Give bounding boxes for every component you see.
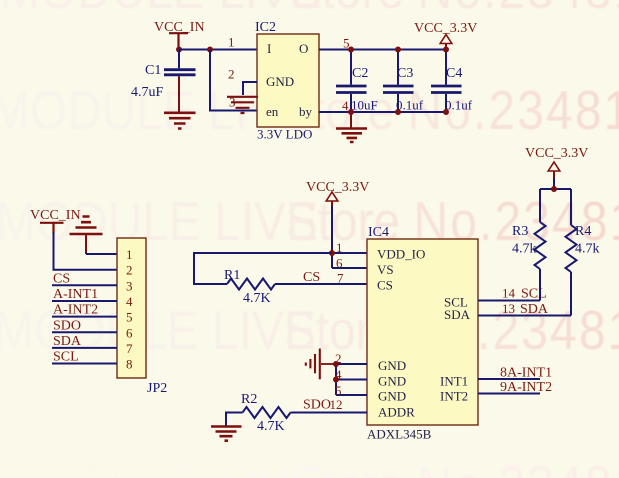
wire R2 to IC4 pin12 ADDR bbox=[291, 412, 368, 414]
node junction C3 top bbox=[395, 47, 401, 53]
ground under C2 bbox=[336, 112, 367, 142]
capacitor C2 bbox=[336, 50, 378, 113]
node junction IC4 pin1 bbox=[329, 250, 335, 256]
svg-text:INT2: INT2 bbox=[440, 389, 468, 404]
watermark row 4 bbox=[0, 303, 619, 358]
wire IC4 INT2 pin9 bbox=[478, 393, 540, 395]
svg-text:en: en bbox=[266, 104, 279, 119]
ground sideways (IC4 GND) bbox=[306, 349, 336, 380]
watermark row 5 (bottom, cut) bbox=[0, 458, 619, 478]
wire R1 loop bbox=[194, 253, 332, 284]
node junction C4 top bbox=[443, 47, 449, 53]
svg-text:GND: GND bbox=[378, 358, 406, 373]
power symbol VCC_3.3V (above IC4) bbox=[306, 180, 369, 208]
svg-text:CS: CS bbox=[377, 278, 393, 293]
svg-text:8: 8 bbox=[126, 357, 133, 372]
svg-text:9A-INT2: 9A-INT2 bbox=[500, 380, 552, 395]
svg-text:6: 6 bbox=[126, 325, 133, 340]
svg-text:SDO: SDO bbox=[53, 318, 81, 333]
svg-text:4.7uF: 4.7uF bbox=[131, 85, 164, 100]
svg-text:13: 13 bbox=[502, 301, 515, 316]
svg-text:I: I bbox=[267, 41, 271, 56]
svg-text:7: 7 bbox=[126, 341, 133, 356]
wire VCC to IC4 pin1/pin6 bbox=[332, 206, 367, 268]
wire JP2 pin1 bbox=[86, 253, 117, 255]
wire IC4 SDA pin13 bbox=[478, 315, 571, 317]
svg-text:0.1uf: 0.1uf bbox=[445, 98, 473, 113]
svg-text:C3: C3 bbox=[397, 66, 413, 81]
svg-text:SDA: SDA bbox=[53, 334, 82, 349]
watermark row 2 bbox=[0, 83, 619, 138]
node junction C4 bottom bbox=[443, 109, 449, 115]
svg-text:VDD_IO: VDD_IO bbox=[377, 247, 425, 262]
svg-text:INT1: INT1 bbox=[440, 374, 468, 389]
ground at IC2 pin2 bbox=[227, 97, 258, 113]
wire GND bus IC4 bbox=[336, 364, 367, 395]
svg-text:4: 4 bbox=[126, 294, 133, 309]
svg-text:A-INT2: A-INT2 bbox=[53, 303, 98, 318]
wire JP2 pin6 SDO bbox=[52, 331, 117, 333]
node junction R3/R4 VCC bbox=[551, 186, 557, 192]
node junction C2 top bbox=[348, 47, 354, 53]
svg-text:SDA: SDA bbox=[444, 307, 471, 322]
node junction VCC_IN/C1 bbox=[176, 47, 182, 53]
wire JP2 pin3 CS bbox=[52, 284, 117, 286]
node junction GND pin2 bbox=[333, 361, 339, 367]
wire IC2 pin2 to ground bbox=[243, 82, 257, 95]
svg-text:CS: CS bbox=[53, 271, 70, 286]
resistor R2 bbox=[241, 392, 291, 434]
resistor R4 bbox=[566, 189, 600, 316]
svg-text:4.7K: 4.7K bbox=[243, 291, 271, 306]
svg-text:6: 6 bbox=[336, 256, 343, 271]
wire to IC2 pin3 en bbox=[210, 50, 257, 111]
svg-text:4: 4 bbox=[335, 367, 342, 382]
wire IC2 by pin rail bottom bbox=[319, 111, 446, 113]
svg-text:R1: R1 bbox=[224, 268, 240, 283]
svg-text:R4: R4 bbox=[575, 224, 591, 239]
svg-text:VCC_IN: VCC_IN bbox=[30, 208, 81, 223]
svg-text:by: by bbox=[299, 104, 313, 119]
svg-text:JP2: JP2 bbox=[147, 381, 167, 396]
power symbol VCC_IN (JP2) bbox=[30, 208, 81, 234]
wire IC4 SCL pin14 bbox=[478, 300, 540, 302]
capacitor C4 bbox=[431, 50, 473, 113]
svg-text:2: 2 bbox=[126, 263, 133, 278]
wire R2 left to ground bbox=[226, 413, 243, 426]
ground under C1 bbox=[164, 113, 196, 129]
wire VCC_IN to IC2 pin1 bbox=[179, 49, 257, 51]
svg-text:3: 3 bbox=[126, 278, 133, 293]
resistor R3 bbox=[512, 189, 546, 301]
wire JP2 pin7 SDA bbox=[52, 347, 117, 349]
wire JP2 pin8 SCL bbox=[52, 363, 117, 365]
svg-text:4.7k: 4.7k bbox=[575, 242, 600, 257]
node junction GND pin4 bbox=[333, 377, 339, 383]
wire JP2 pin4 A-INT1 bbox=[52, 300, 117, 302]
svg-text:SDA: SDA bbox=[520, 302, 549, 317]
node junction C3 bottom bbox=[395, 109, 401, 115]
svg-text:SDO: SDO bbox=[303, 398, 331, 413]
watermark row 3 bbox=[0, 194, 619, 249]
svg-text:A-INT1: A-INT1 bbox=[53, 287, 98, 302]
svg-text:SCL: SCL bbox=[53, 350, 79, 365]
accelerometer IC4 box bbox=[367, 225, 478, 442]
svg-text:10uF: 10uF bbox=[351, 98, 378, 113]
svg-text:R3: R3 bbox=[512, 224, 528, 239]
power symbol VCC_IN (top) bbox=[154, 20, 205, 47]
ground at JP2 pin1 (inverted) bbox=[70, 217, 103, 255]
svg-text:R2: R2 bbox=[241, 392, 257, 407]
svg-text:1: 1 bbox=[228, 35, 235, 50]
svg-text:VS: VS bbox=[377, 262, 394, 277]
IC2 regulator box bbox=[255, 20, 319, 142]
capacitor C3 bbox=[383, 50, 424, 113]
svg-text:8A-INT1: 8A-INT1 bbox=[500, 366, 552, 381]
svg-text:CS: CS bbox=[303, 270, 320, 285]
svg-text:ADXL345B: ADXL345B bbox=[367, 427, 432, 442]
svg-text:O: O bbox=[299, 41, 308, 56]
wire JP2 pin5 A-INT2 bbox=[52, 316, 117, 318]
node junction C2 bottom bbox=[348, 109, 354, 115]
ground under R2 bbox=[211, 427, 242, 441]
svg-text:12: 12 bbox=[330, 397, 343, 412]
svg-text:SCL: SCL bbox=[521, 287, 547, 302]
svg-text:ADDR: ADDR bbox=[378, 405, 415, 420]
wire VCC_IN to JP2 pin2 bbox=[54, 232, 118, 270]
watermark row 1 bbox=[0, 0, 619, 17]
power symbol VCC_3.3V (right) bbox=[525, 146, 588, 178]
svg-text:IC2: IC2 bbox=[255, 20, 276, 35]
svg-text:5: 5 bbox=[126, 310, 133, 325]
capacitor C1 bbox=[131, 50, 196, 112]
svg-text:1: 1 bbox=[126, 247, 133, 262]
svg-text:C4: C4 bbox=[446, 66, 462, 81]
wire IC2 output rail top bbox=[319, 49, 446, 51]
svg-text:GND: GND bbox=[266, 74, 294, 89]
node junction en branch bbox=[207, 47, 213, 53]
wire R1 to IC4 pin7 CS bbox=[275, 283, 367, 285]
svg-text:7: 7 bbox=[337, 271, 344, 286]
svg-text:3.3V LDO: 3.3V LDO bbox=[257, 127, 312, 142]
svg-text:IC4: IC4 bbox=[368, 225, 389, 240]
svg-text:2: 2 bbox=[228, 67, 235, 82]
svg-text:5: 5 bbox=[335, 383, 342, 398]
svg-text:VCC_3.3V: VCC_3.3V bbox=[306, 180, 369, 195]
svg-text:14: 14 bbox=[502, 286, 516, 301]
svg-text:1: 1 bbox=[336, 240, 343, 255]
svg-text:C1: C1 bbox=[145, 63, 161, 78]
power symbol VCC_3.3V (top right) bbox=[414, 21, 477, 47]
svg-text:C2: C2 bbox=[352, 66, 368, 81]
svg-text:GND: GND bbox=[378, 374, 406, 389]
svg-text:GND: GND bbox=[378, 389, 406, 404]
wire IC4 INT1 pin8 bbox=[478, 378, 540, 380]
svg-text:4: 4 bbox=[342, 98, 349, 113]
resistor R1 bbox=[224, 268, 275, 306]
wire R3/R4 top connector bbox=[540, 177, 571, 189]
svg-text:4.7k: 4.7k bbox=[512, 242, 537, 257]
svg-text:VCC_3.3V: VCC_3.3V bbox=[525, 146, 588, 161]
svg-text:4.7K: 4.7K bbox=[257, 419, 285, 434]
connector JP2 box bbox=[117, 238, 167, 396]
